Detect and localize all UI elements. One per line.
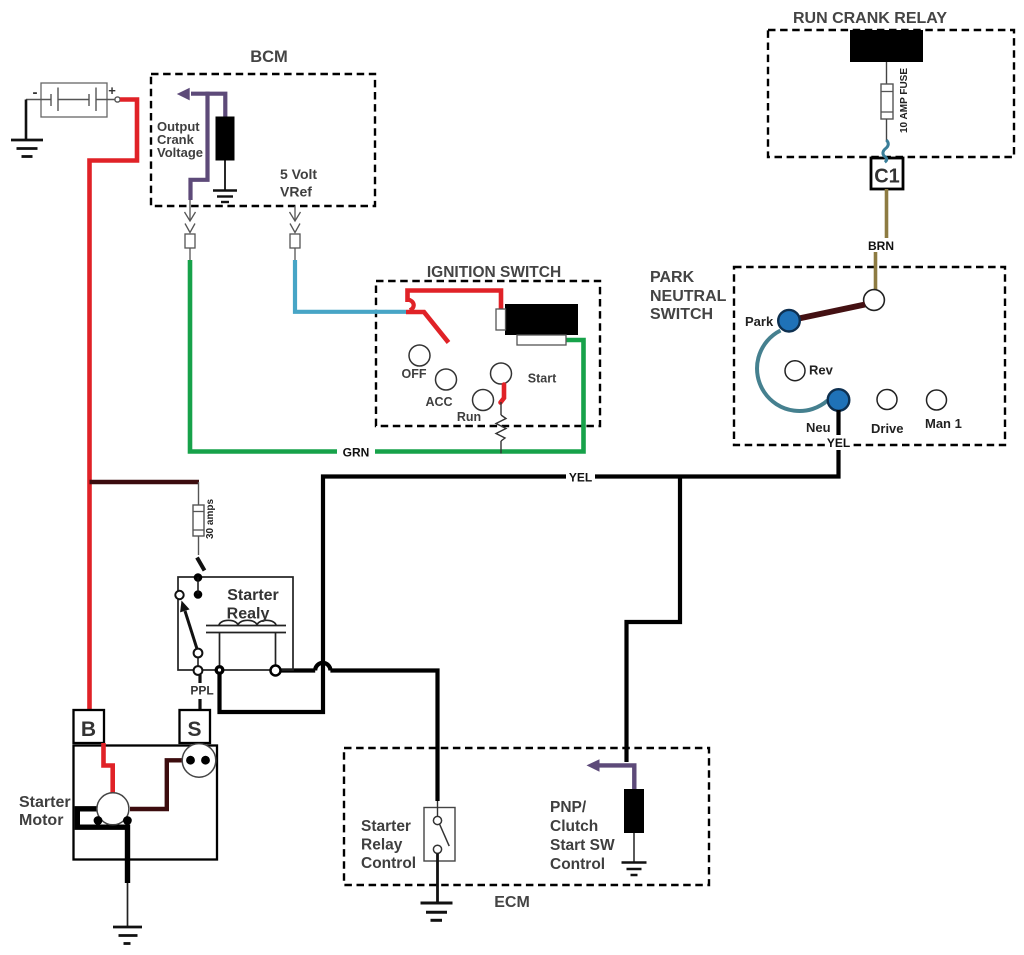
svg-text:ACC: ACC bbox=[425, 395, 452, 409]
svg-text:IGNITION SWITCH: IGNITION SWITCH bbox=[427, 264, 561, 281]
svg-text:Clutch: Clutch bbox=[550, 818, 598, 835]
svg-text:Man 1: Man 1 bbox=[925, 416, 962, 431]
svg-text:YEL: YEL bbox=[569, 471, 592, 485]
svg-text:Relay: Relay bbox=[361, 837, 403, 854]
svg-text:Neu: Neu bbox=[806, 420, 831, 435]
svg-text:+: + bbox=[108, 83, 116, 98]
svg-text:Control: Control bbox=[361, 855, 416, 872]
svg-text:RUN CRANK RELAY: RUN CRANK RELAY bbox=[793, 10, 947, 27]
svg-text:Control: Control bbox=[550, 856, 605, 873]
svg-text:BRN: BRN bbox=[868, 239, 894, 253]
svg-text:Motor: Motor bbox=[19, 812, 63, 829]
svg-text:PPL: PPL bbox=[190, 684, 213, 698]
svg-text:5 Volt: 5 Volt bbox=[280, 166, 317, 182]
svg-text:10 AMP FUSE: 10 AMP FUSE bbox=[899, 68, 910, 133]
svg-text:C1: C1 bbox=[874, 166, 900, 188]
svg-text:PNP/: PNP/ bbox=[550, 799, 587, 816]
svg-text:B: B bbox=[81, 718, 96, 741]
svg-text:Start SW: Start SW bbox=[550, 837, 615, 854]
svg-text:VRef: VRef bbox=[280, 184, 312, 200]
svg-text:BCM: BCM bbox=[250, 48, 288, 66]
svg-text:GRN: GRN bbox=[343, 446, 370, 460]
svg-text:ECM: ECM bbox=[494, 894, 530, 911]
svg-text:S: S bbox=[187, 718, 201, 741]
svg-text:PARK: PARK bbox=[650, 269, 695, 286]
svg-text:Voltage: Voltage bbox=[157, 145, 203, 160]
svg-text:Realy: Realy bbox=[227, 606, 270, 623]
svg-text:Starter: Starter bbox=[19, 794, 71, 811]
svg-text:YEL: YEL bbox=[827, 436, 850, 450]
svg-text:NEUTRAL: NEUTRAL bbox=[650, 288, 727, 305]
svg-text:Run: Run bbox=[457, 410, 481, 424]
svg-text:Rev: Rev bbox=[809, 363, 834, 378]
svg-text:Starter: Starter bbox=[227, 587, 279, 604]
svg-text:Start: Start bbox=[528, 372, 557, 386]
svg-text:SWITCH: SWITCH bbox=[650, 306, 713, 323]
svg-text:Starter: Starter bbox=[361, 818, 411, 835]
svg-text:Drive: Drive bbox=[871, 421, 904, 436]
svg-text:Park: Park bbox=[745, 314, 774, 329]
svg-text:OFF: OFF bbox=[402, 367, 427, 381]
svg-text:30 amps: 30 amps bbox=[205, 499, 216, 539]
svg-text:-: - bbox=[33, 84, 38, 101]
